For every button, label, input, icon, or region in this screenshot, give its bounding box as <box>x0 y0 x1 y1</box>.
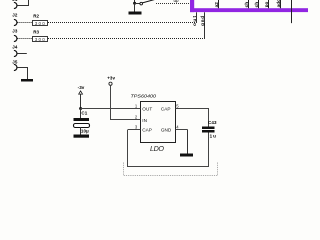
module pin wire a2 <box>218 0 220 8</box>
resistor R3 <box>33 30 48 42</box>
svg-text:300: 300 <box>35 37 45 42</box>
module pin wire ch_1 <box>248 0 250 8</box>
svg-text:R3: R3 <box>33 30 39 35</box>
svg-text:ch_: ch_ <box>254 0 259 7</box>
wire R3 to module pin gnd <box>48 38 205 40</box>
wire pin 5 to C43 <box>188 108 210 110</box>
capacitor C1 <box>74 110 90 133</box>
wire junction to ground <box>134 4 136 12</box>
ground bar at pin 4 <box>180 154 193 157</box>
wire crossing purple net downward <box>291 0 293 23</box>
wire J5 to ground <box>17 67 28 69</box>
svg-text:-3v: -3v <box>78 85 85 90</box>
wire +3v to pin 2 IN <box>110 85 112 120</box>
wire stub above junction <box>134 0 136 4</box>
svg-text:CAP: CAP <box>142 128 152 133</box>
svg-text:LDO: LDO <box>150 144 164 153</box>
pin 5 stub <box>176 108 188 110</box>
pin 1 stub <box>128 108 141 110</box>
IC U1 TPS60400 charge pump <box>131 94 176 153</box>
svg-text:ch_: ch_ <box>244 0 249 7</box>
svg-text:R2: R2 <box>33 14 39 19</box>
svg-text:CAP: CAP <box>161 107 171 112</box>
svg-text:GND: GND <box>161 128 172 133</box>
node junction -3v net <box>79 107 82 110</box>
purple highlighted net (module corner) <box>190 0 308 12</box>
svg-text:IN: IN <box>142 118 147 123</box>
svg-text:J2: J2 <box>12 12 18 17</box>
wire C43 to pin 3 loop <box>208 133 210 168</box>
supply -3v symbol <box>78 85 85 94</box>
pin 4 stub <box>176 129 188 131</box>
connector J4 <box>12 45 18 57</box>
svg-text:+3v: +3v <box>107 76 115 81</box>
ground bar at J5 <box>21 79 33 82</box>
wire J1 to top edge <box>17 5 29 7</box>
wire J2 to R2 <box>17 22 32 24</box>
ground bar at C1 <box>74 135 90 138</box>
pin 3 stub <box>128 129 141 131</box>
svg-text:J1: J1 <box>12 0 18 2</box>
connector J2 <box>12 12 18 25</box>
svg-text:C1: C1 <box>81 110 87 115</box>
wire node to C1 <box>80 109 82 119</box>
switch lever <box>142 0 155 3</box>
wire J4 stub <box>17 53 26 55</box>
svg-text:a2: a2 <box>214 2 219 8</box>
svg-text:10µ: 10µ <box>81 128 89 133</box>
switch S1 top center <box>129 0 156 15</box>
supply +3v symbol <box>107 76 115 86</box>
node junction dot <box>133 2 136 5</box>
wire C1 to ground <box>80 127 82 135</box>
svg-text:C43: C43 <box>208 120 217 125</box>
svg-text:J5: J5 <box>12 59 18 64</box>
module pin wire pot <box>268 0 270 8</box>
connector J1 <box>12 0 18 9</box>
svg-text:po: po <box>264 2 269 8</box>
svg-text:gnd: gnd <box>200 16 205 26</box>
pin 2 stub <box>128 119 141 121</box>
wire R2 to module pin out <box>48 22 197 24</box>
switch contact circle <box>140 2 143 5</box>
svg-text:u: u <box>213 133 216 138</box>
dashed group frame bottom <box>124 163 218 176</box>
svg-text:up: up <box>174 0 180 3</box>
svg-text:J4: J4 <box>12 45 18 50</box>
wire node to pin 1 OUT <box>81 108 141 110</box>
wire junction to switch contact <box>135 3 140 5</box>
svg-text:TPS60400: TPS60400 <box>131 94 157 100</box>
wire J3 to R3 <box>17 38 32 40</box>
svg-text:300: 300 <box>35 21 45 26</box>
svg-text:OUT: OUT <box>142 107 152 112</box>
resistor R2 <box>33 14 48 26</box>
wire switch to purple net <box>156 3 190 5</box>
wire -3v to node <box>80 94 82 108</box>
svg-text:J3: J3 <box>12 28 18 33</box>
purple horizontal segment <box>190 8 308 12</box>
purple vertical segment <box>190 0 194 12</box>
capacitor C43 <box>202 120 217 138</box>
connector J3 <box>12 28 18 41</box>
svg-text:out: out <box>192 15 197 25</box>
ground bar at switch <box>129 12 142 15</box>
svg-text:adc: adc <box>276 0 281 7</box>
connector J5 <box>12 59 18 70</box>
module pin wire adc <box>280 0 282 8</box>
wire pin 4 to ground <box>187 130 189 154</box>
module pin wire ch_2 <box>258 0 260 8</box>
